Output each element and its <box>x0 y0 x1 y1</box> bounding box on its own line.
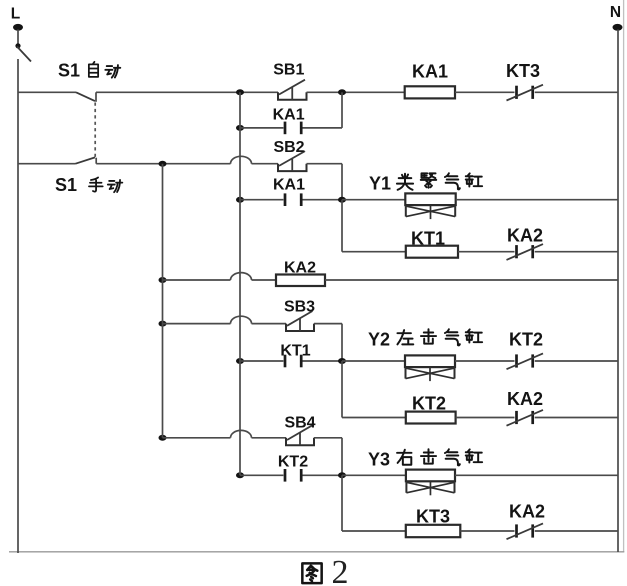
time relay coil KT1 <box>406 246 458 258</box>
wire row8 Y2 to KT2 contact <box>455 360 515 362</box>
pushbutton SB3 (normally open) <box>286 311 314 331</box>
svg-text:SB4: SB4 <box>284 415 315 432</box>
wire row1 switch to SB1 <box>96 91 278 93</box>
junction row4 / vertical x342 <box>338 197 346 203</box>
wire vertical x342 row11 to row12 <box>341 475 343 531</box>
junction row11 / vertical x342 <box>338 472 346 478</box>
wire vertical x342 row3 to row4 <box>341 164 343 200</box>
junction row1 / vertical x342 <box>338 89 346 95</box>
wire row3 switch to hop <box>96 163 230 165</box>
NC contact KT3 (time relay) <box>507 85 544 101</box>
terminal dot N <box>613 24 623 31</box>
solenoid valve Y3 <box>406 470 455 496</box>
wire row8 KT2 to N rail <box>535 360 618 362</box>
label S1手动 <box>55 175 122 195</box>
wire row8 to Y2 solenoid <box>342 360 405 362</box>
wire row11 to Y3 solenoid <box>342 474 406 476</box>
wire row8 left segment <box>240 360 283 362</box>
wire row4 to Y1 solenoid <box>342 199 405 201</box>
wire row7 hop to SB3 <box>252 323 287 325</box>
wire row1 KA1 coil to KT3 contact <box>455 91 515 93</box>
svg-text:KA1: KA1 <box>412 62 448 82</box>
svg-text:L: L <box>11 6 20 23</box>
rail N (right bus) <box>617 30 619 553</box>
wire row12 KA2 to N rail <box>535 530 618 532</box>
label Y1夹紧气缸 <box>369 173 482 193</box>
solenoid valve Y1 <box>405 193 455 219</box>
junction row2 / vertical x240 <box>236 125 244 131</box>
wire hop row6 over x240 <box>231 273 252 280</box>
wire row11 right segment <box>303 474 343 476</box>
wire row7 SB3 to corner x342 <box>314 323 342 325</box>
wire row11 Y3 to N rail <box>455 474 618 476</box>
NC contact KA2 (row9) <box>507 410 544 426</box>
line disconnect switch on L rail <box>15 30 31 62</box>
wire row4 left segment <box>240 199 283 201</box>
wire row3 from L rail to switch S1 manual <box>18 163 76 165</box>
svg-text:SB2: SB2 <box>273 139 304 156</box>
wire row4 right segment <box>303 199 343 201</box>
wire row2 right segment <box>303 127 343 129</box>
wire vertical x342 row10 to row11 <box>341 438 343 476</box>
svg-text:KT3: KT3 <box>506 61 540 81</box>
wire row7 left segment <box>163 323 231 325</box>
pushbutton SB4 (normally open) <box>286 425 314 445</box>
svg-text:N: N <box>610 4 621 21</box>
svg-text:KT2: KT2 <box>278 454 308 471</box>
switch S1 automatic contact (blade) <box>76 92 96 102</box>
svg-text:KT2: KT2 <box>412 394 446 414</box>
solenoid valve Y2 <box>405 355 455 381</box>
wire vertical bus x240 <box>239 92 241 475</box>
wire row1 SB1 to KA1 coil <box>307 91 405 93</box>
wire row5 left segment <box>342 251 406 253</box>
NO contact KA1 (self hold) <box>285 122 301 135</box>
junction row6 / vertical x162 <box>159 277 167 283</box>
wire hop row7 over x240 <box>231 316 252 323</box>
svg-text:KT2: KT2 <box>509 330 543 350</box>
svg-text:2: 2 <box>332 554 349 586</box>
time relay coil KT2 <box>406 412 456 424</box>
wire row5 coil to KA2 contact <box>458 251 515 253</box>
junction row11 / vertical x240 <box>236 472 244 478</box>
svg-text:Y2: Y2 <box>368 330 390 350</box>
wire row1 from L rail to switch S1 <box>18 91 76 93</box>
wire vertical branch x342 row1-row2 <box>341 92 343 128</box>
time relay coil KT3 <box>406 525 461 537</box>
wire row11 left segment <box>240 474 283 476</box>
NC contact KT2 (row8) <box>507 353 544 369</box>
wire row2 left segment <box>240 127 283 129</box>
wire row10 hop to SB4 <box>252 437 287 439</box>
junction row10 / vertical x162 <box>159 435 167 441</box>
relay coil KA1 <box>405 86 455 98</box>
junction row8 / vertical x342 <box>338 358 346 364</box>
NO contact KA1 (manual enable) <box>285 193 301 206</box>
svg-text:Y1: Y1 <box>369 174 391 194</box>
NO contact KT2 <box>285 469 301 482</box>
wire vertical bus x162 (manual branch) <box>162 164 164 438</box>
pushbutton SB1 (normally open) <box>278 80 307 100</box>
mechanical link dashed line between S1 blades <box>94 103 96 158</box>
svg-text:KA1: KA1 <box>273 107 305 124</box>
wire vertical x342 row7 to row8 <box>341 324 343 361</box>
terminal dot L <box>13 24 23 31</box>
NC contact KA2 (row5) <box>507 244 544 260</box>
wire vertical x342 row8 to row9 <box>341 361 343 418</box>
wire row5 KA2 to N rail <box>535 251 618 253</box>
svg-text:KT1: KT1 <box>280 343 310 360</box>
label Y2左击气缸 <box>368 329 482 349</box>
wire row10 left segment <box>163 437 231 439</box>
wire row12 coil to KA2 contact <box>460 530 514 532</box>
label Y3右击气缸 <box>368 449 482 469</box>
switch S1 manual contact (blade) <box>76 157 97 163</box>
NO contact KT1 <box>285 355 301 368</box>
svg-text:SB1: SB1 <box>273 62 304 79</box>
wire row9 coil to KA2 contact <box>456 417 515 419</box>
junction row3 / vertical x162 <box>159 161 167 167</box>
wire row12 left segment <box>342 530 406 532</box>
wire vertical x342 row4 to row5 <box>341 200 343 252</box>
junction row7 / vertical x162 <box>159 321 167 327</box>
wire row8 right segment <box>303 360 343 362</box>
wire row6 hop to KA2 coil <box>252 279 277 281</box>
svg-text:S1: S1 <box>55 175 77 195</box>
svg-text:KA1: KA1 <box>273 177 305 194</box>
svg-text:SB3: SB3 <box>284 299 315 316</box>
junction row4 / vertical x240 <box>236 197 244 203</box>
wire hop row3 over x240 <box>231 156 252 163</box>
junction row8 / vertical x240 <box>236 358 244 364</box>
svg-text:KA2: KA2 <box>509 502 545 522</box>
svg-text:S1: S1 <box>58 61 80 81</box>
wire row4 Y1 to N rail <box>456 199 618 201</box>
wire row9 left segment <box>342 417 406 419</box>
wire row3 hop to SB2 <box>252 163 279 165</box>
wire row6 left segment <box>163 279 231 281</box>
junction row1 / vertical x240 <box>236 89 244 95</box>
svg-text:KT3: KT3 <box>416 507 450 527</box>
svg-text:KA2: KA2 <box>507 389 543 409</box>
NC contact KA2 (row12) <box>507 523 544 539</box>
wire row1 KT3 to N rail <box>535 91 618 93</box>
relay coil KA2 <box>276 275 325 287</box>
wire row6 KA2 coil to N rail <box>325 279 618 281</box>
wire row10 SB4 to corner x342 <box>314 437 342 439</box>
svg-text:KA2: KA2 <box>284 260 316 277</box>
rail L (left bus) <box>17 59 19 553</box>
pushbutton SB2 (normally open) <box>278 151 307 171</box>
svg-text:KA2: KA2 <box>507 226 543 246</box>
wire row3 SB2 to corner x342 <box>307 163 343 165</box>
svg-text:Y3: Y3 <box>368 450 390 470</box>
wire hop row10 over x240 <box>231 430 252 437</box>
caption 图 2 <box>302 554 348 586</box>
label S1自动 <box>58 61 120 81</box>
svg-text:KT1: KT1 <box>411 229 445 249</box>
wire row9 KA2 to N rail <box>535 417 618 419</box>
